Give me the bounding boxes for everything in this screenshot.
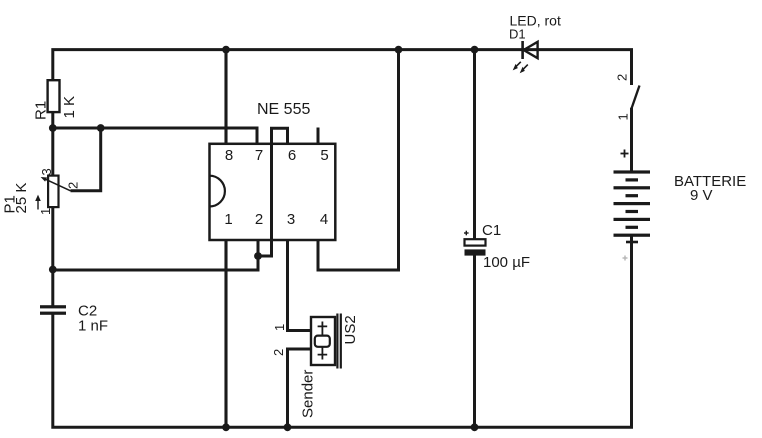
svg-text:1: 1 — [272, 324, 287, 331]
svg-text:100 µF: 100 µF — [483, 254, 530, 271]
svg-text:1: 1 — [224, 211, 232, 228]
svg-text:4: 4 — [320, 211, 328, 228]
svg-text:3: 3 — [39, 168, 54, 175]
svg-text:NE 555: NE 555 — [257, 101, 310, 118]
svg-text:1 K: 1 K — [61, 96, 78, 119]
svg-text:2: 2 — [255, 211, 263, 228]
svg-text:5: 5 — [320, 147, 328, 164]
svg-text:1 nF: 1 nF — [78, 318, 108, 335]
svg-text:C1: C1 — [482, 222, 501, 239]
svg-text:8: 8 — [225, 147, 233, 164]
svg-text:6: 6 — [288, 147, 296, 164]
svg-text:R1: R1 — [33, 101, 50, 120]
svg-text:3: 3 — [287, 211, 295, 228]
svg-text:1: 1 — [38, 208, 53, 215]
svg-text:2: 2 — [66, 182, 81, 189]
svg-text:7: 7 — [255, 147, 263, 164]
svg-text:D1: D1 — [509, 27, 526, 42]
svg-text:US2: US2 — [342, 315, 359, 344]
svg-text:9 V: 9 V — [690, 187, 713, 204]
svg-text:2: 2 — [615, 74, 630, 81]
svg-text:2: 2 — [271, 349, 286, 356]
svg-text:Sender: Sender — [300, 370, 317, 418]
svg-text:25 K: 25 K — [13, 183, 30, 214]
svg-text:1: 1 — [616, 113, 631, 120]
